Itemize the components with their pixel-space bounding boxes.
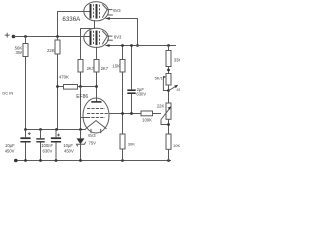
wire ground bus xyxy=(16,160,171,162)
wire cathode leg xyxy=(85,128,87,131)
wire grid sense line xyxy=(109,113,161,115)
wire g3 stub to bracket xyxy=(81,117,88,119)
wire output 450V arrow xyxy=(169,85,187,92)
svg-text:EF86: EF86 xyxy=(76,94,88,100)
resistor 100K xyxy=(141,111,161,122)
svg-text:5K/1: 5K/1 xyxy=(155,76,164,81)
wire 56K to bus xyxy=(25,57,27,130)
node 470K left junction xyxy=(56,85,59,88)
svg-text:DC IN: DC IN xyxy=(2,91,13,96)
wire mid bus xyxy=(26,129,86,131)
resistor 2K7 upper grid stopper xyxy=(78,60,95,73)
svg-text:100K: 100K xyxy=(142,117,152,122)
potentiometer 5K/1 xyxy=(155,74,171,104)
svg-text:450V: 450V xyxy=(177,87,181,92)
svg-text:75V: 75V xyxy=(89,141,97,146)
tube V1b 6336A lower half xyxy=(84,28,113,47)
node divider tap xyxy=(121,112,124,115)
wire 2K7a to 470K node xyxy=(80,72,82,87)
node DC input dot xyxy=(12,35,16,39)
svg-text:10µF: 10µF xyxy=(5,143,15,148)
svg-text:630V: 630V xyxy=(43,149,53,154)
svg-text:6V3: 6V3 xyxy=(114,34,122,39)
svg-text:33K: 33K xyxy=(174,58,180,63)
node junction rail/upper-plate xyxy=(56,35,59,38)
svg-text:22K: 22K xyxy=(47,48,55,53)
resistor 2K7 lower grid stopper xyxy=(94,47,109,72)
node + input terminal xyxy=(5,33,10,38)
node 470K right junction xyxy=(79,85,82,88)
svg-text:630V: 630V xyxy=(136,92,146,97)
node cathode junction on output rail xyxy=(136,44,139,47)
wire EF86 anode lead xyxy=(96,72,98,102)
wire upper grid lead xyxy=(81,20,95,59)
svg-text:100nF: 100nF xyxy=(41,143,53,148)
node ground junctions xyxy=(24,159,170,162)
resistor 470K xyxy=(58,75,97,90)
node 470K anode junction xyxy=(95,85,98,88)
wire 22K to bus xyxy=(57,54,59,130)
capacitor C1 10uF 450V xyxy=(5,128,31,160)
resistor 30K divider bottom xyxy=(120,134,135,161)
svg-text:450V: 450V xyxy=(5,148,15,153)
svg-text:2K7: 2K7 xyxy=(101,66,109,71)
svg-text:10µF: 10µF xyxy=(63,143,73,148)
resistor 33K xyxy=(166,44,181,73)
tube V1a 6336A upper half xyxy=(84,2,113,21)
potentiometer 22K xyxy=(157,103,172,134)
node 5K wiper junction xyxy=(167,89,170,92)
resistor 15K right bottom xyxy=(166,134,180,161)
node bus/zener junction xyxy=(79,128,82,131)
wire output rail xyxy=(105,44,176,47)
node 33K/5K junction xyxy=(167,69,170,72)
resistor 22K xyxy=(47,37,60,55)
wire upper plate lead xyxy=(58,12,91,37)
wire input rail xyxy=(14,36,91,38)
resistor 15K divider top xyxy=(113,46,125,73)
wire divider mid xyxy=(122,72,124,134)
svg-text:470K: 470K xyxy=(59,75,69,80)
svg-text:6V3: 6V3 xyxy=(113,8,121,13)
capacitor 2uF 630V xyxy=(127,44,146,113)
tube V2 EF86 xyxy=(83,98,109,133)
svg-text:3W: 3W xyxy=(15,50,22,55)
capacitor C3 10uF 450V xyxy=(51,128,74,160)
node junction rail/56K xyxy=(24,35,27,38)
resistor 56K 3W xyxy=(15,37,28,57)
node cap tap xyxy=(130,112,133,115)
wire upper cathode to rail xyxy=(105,17,138,45)
svg-text:30K: 30K xyxy=(128,141,135,146)
node 22K wiper junction xyxy=(167,123,170,126)
capacitor C2 100nF 630V xyxy=(36,128,53,160)
svg-text:6V3: 6V3 xyxy=(88,133,96,138)
diode zener 75V xyxy=(77,130,97,161)
svg-text:22K: 22K xyxy=(157,103,165,108)
svg-text:450V: 450V xyxy=(64,149,74,154)
svg-text:6336A: 6336A xyxy=(62,16,81,23)
wire grid3 drop xyxy=(80,87,82,130)
svg-text:15K: 15K xyxy=(113,64,121,69)
svg-text:10K: 10K xyxy=(173,143,180,148)
node ground terminal xyxy=(14,159,18,163)
